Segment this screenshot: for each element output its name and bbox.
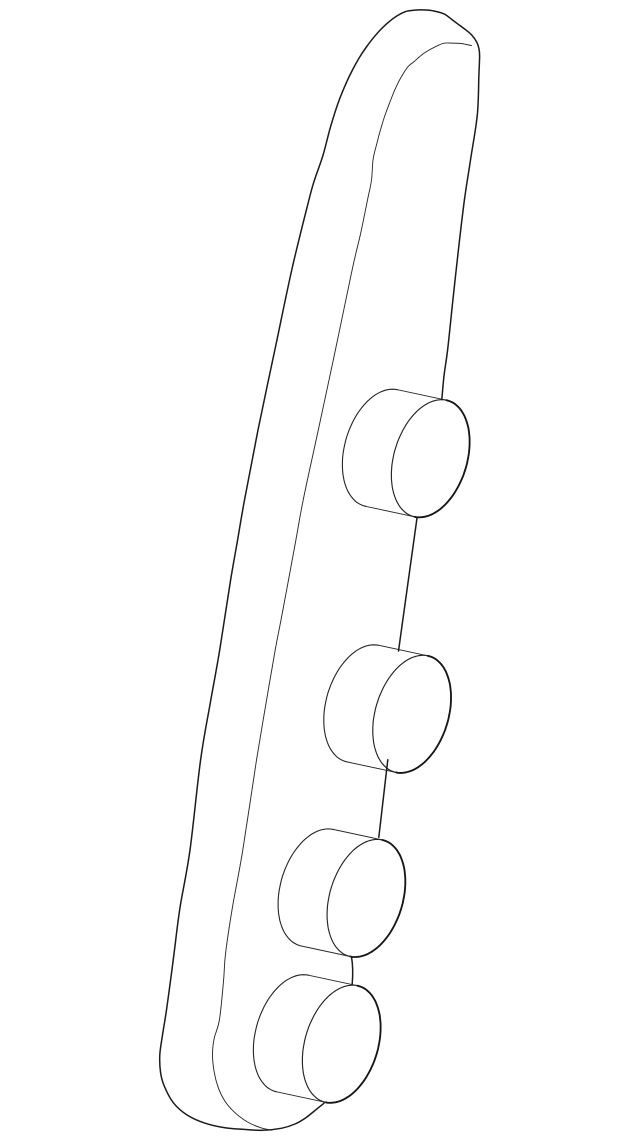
housing outer silhouette (bottom U, left edge, top cap, right edge) [160, 10, 480, 1131]
socket boss 4 (bottom): top silhouette line [308, 975, 357, 986]
socket boss 2: front face rim, inner arc [373, 655, 428, 772]
socket boss 1 (top): front face rim, inner arc [391, 400, 446, 517]
socket boss 4 (bottom): front face rim, inner arc [302, 985, 357, 1102]
socket boss 2: front face rim, outer silhouette arc [396, 656, 451, 773]
socket boss 3: front face rim, outer silhouette arc [350, 840, 405, 957]
socket boss 4 (bottom): front face rim, outer silhouette arc [326, 986, 381, 1103]
socket boss 1 (top): top silhouette line [397, 390, 446, 401]
socket boss 1 (top): front face rim, outer silhouette arc [415, 400, 470, 517]
housing front-face inner edge [213, 43, 472, 1130]
socket boss 2: rear rim arc [324, 645, 379, 762]
housing right edge segment between bosses 2 and 3 [379, 760, 388, 838]
socket boss 2: bottom silhouette line [347, 762, 396, 773]
housing right edge segment between bosses 1 and 2 [399, 518, 418, 651]
socket boss 1 (top): bottom silhouette line [366, 506, 415, 517]
socket boss 4 (bottom): bottom silhouette line [277, 1092, 326, 1103]
socket boss 2: top silhouette line [379, 645, 428, 656]
socket boss 3: bottom silhouette line [301, 946, 350, 957]
socket boss 1 (top): rear rim arc [342, 389, 397, 506]
housing right edge segment between bosses 3 and 4 [352, 957, 353, 984]
socket boss 3: rear rim arc [278, 829, 333, 946]
socket boss 3: front face rim, inner arc [327, 839, 382, 956]
socket boss 4 (bottom): rear rim arc [253, 975, 308, 1092]
socket boss 3: top silhouette line [333, 829, 382, 840]
